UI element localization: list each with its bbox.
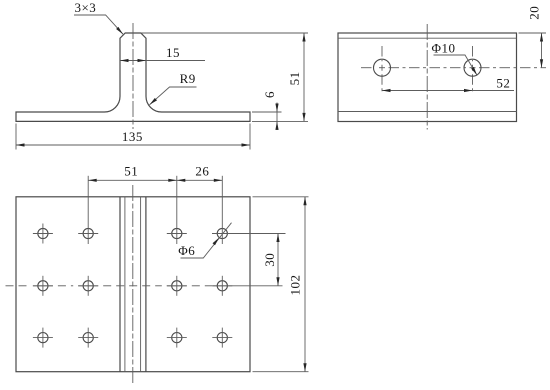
svg-text:Φ10: Φ10 — [431, 40, 455, 55]
svg-text:52: 52 — [496, 76, 510, 91]
svg-text:135: 135 — [122, 129, 143, 144]
svg-text:3×3: 3×3 — [74, 0, 96, 15]
svg-text:15: 15 — [166, 45, 180, 60]
svg-text:20: 20 — [526, 6, 541, 20]
svg-text:6: 6 — [262, 91, 277, 98]
svg-text:30: 30 — [262, 253, 277, 267]
svg-text:26: 26 — [195, 164, 209, 179]
svg-text:102: 102 — [288, 275, 303, 296]
svg-text:51: 51 — [124, 164, 138, 179]
svg-text:Φ6: Φ6 — [178, 243, 195, 258]
svg-text:51: 51 — [287, 71, 302, 85]
svg-text:R9: R9 — [180, 71, 196, 86]
